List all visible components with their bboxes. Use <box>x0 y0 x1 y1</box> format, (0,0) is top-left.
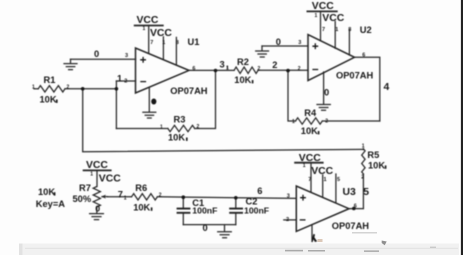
svg-text:R4: R4 <box>304 108 317 118</box>
svg-text:5: 5 <box>337 177 340 183</box>
svg-text:5: 5 <box>363 187 369 198</box>
svg-text:VCC: VCC <box>137 15 159 26</box>
svg-text:VCC: VCC <box>150 28 172 39</box>
svg-text:6: 6 <box>192 66 195 72</box>
svg-text:R5: R5 <box>367 150 379 160</box>
svg-text:1: 1 <box>362 144 365 150</box>
svg-text:VCC: VCC <box>311 166 333 177</box>
svg-text:2: 2 <box>272 60 277 70</box>
svg-text:2: 2 <box>67 84 70 90</box>
svg-text:3: 3 <box>125 53 128 59</box>
svg-text:1: 1 <box>315 13 318 19</box>
svg-text:2: 2 <box>361 174 364 180</box>
svg-text:3: 3 <box>298 40 301 46</box>
svg-text:1: 1 <box>117 74 122 84</box>
svg-text:2: 2 <box>298 66 301 72</box>
svg-text:0: 0 <box>324 88 329 98</box>
svg-text:100nF: 100nF <box>192 205 217 215</box>
svg-text:2: 2 <box>325 118 328 124</box>
svg-text:U2: U2 <box>360 25 372 35</box>
svg-text:R3: R3 <box>174 114 186 124</box>
svg-text:0: 0 <box>276 37 281 47</box>
svg-text:OP07AH: OP07AH <box>332 221 369 231</box>
svg-text:1: 1 <box>90 171 93 177</box>
svg-text:2: 2 <box>197 124 200 130</box>
svg-text:10K: 10K <box>368 160 385 170</box>
svg-text:6: 6 <box>354 204 357 210</box>
svg-text:0: 0 <box>95 203 100 213</box>
svg-text:2: 2 <box>124 79 127 85</box>
svg-text:R6: R6 <box>135 183 147 193</box>
svg-text:VCC: VCC <box>86 160 108 171</box>
svg-text:10K: 10K <box>40 95 57 105</box>
svg-text:10K: 10K <box>133 202 150 212</box>
svg-text:R2: R2 <box>237 57 249 67</box>
svg-text:2: 2 <box>258 66 261 72</box>
svg-text:7: 7 <box>150 40 153 46</box>
svg-text:6: 6 <box>362 53 365 59</box>
svg-text:VCC: VCC <box>322 13 344 24</box>
svg-text:VCC: VCC <box>99 174 121 185</box>
svg-text:3: 3 <box>220 60 225 70</box>
svg-text:OP07AH: OP07AH <box>336 70 373 80</box>
svg-text:Key=A: Key=A <box>36 199 65 209</box>
svg-text:R1: R1 <box>44 75 56 85</box>
svg-text:0: 0 <box>94 49 99 59</box>
svg-text:OP07AH: OP07AH <box>170 86 207 96</box>
svg-text:100nF: 100nF <box>244 205 269 215</box>
svg-text:10K: 10K <box>38 187 55 197</box>
svg-text:6: 6 <box>257 186 262 196</box>
svg-text:4: 4 <box>384 82 390 93</box>
svg-text:10K: 10K <box>234 75 251 85</box>
svg-text:1: 1 <box>143 26 146 32</box>
svg-text:U3: U3 <box>343 187 357 198</box>
svg-text:7: 7 <box>322 27 325 33</box>
svg-text:10K: 10K <box>301 126 318 136</box>
svg-text:10K: 10K <box>168 132 185 142</box>
svg-text:7: 7 <box>118 190 123 200</box>
svg-text:R7: R7 <box>79 183 91 193</box>
svg-text:3: 3 <box>287 194 290 200</box>
svg-text:1: 1 <box>335 27 338 33</box>
svg-text:8: 8 <box>348 27 351 33</box>
svg-text:0: 0 <box>203 223 208 233</box>
svg-text:2: 2 <box>286 217 289 223</box>
svg-text:VCC: VCC <box>312 1 334 12</box>
svg-text:1: 1 <box>32 85 35 91</box>
svg-text:1: 1 <box>124 196 127 202</box>
svg-text:8: 8 <box>176 40 179 46</box>
svg-text:7: 7 <box>308 177 311 183</box>
svg-text:1: 1 <box>324 177 327 183</box>
svg-text:1: 1 <box>303 163 306 169</box>
svg-text:2: 2 <box>159 193 162 199</box>
svg-text:1: 1 <box>162 40 165 46</box>
svg-text:50%: 50% <box>73 194 92 204</box>
svg-text:1: 1 <box>292 119 295 125</box>
svg-text:U1: U1 <box>188 37 200 47</box>
svg-text:1: 1 <box>160 124 163 130</box>
